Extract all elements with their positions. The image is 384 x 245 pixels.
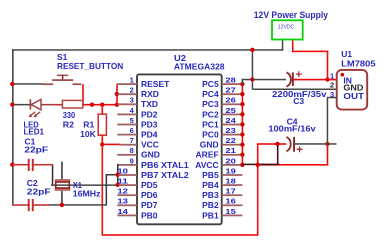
wire AVCC riser xyxy=(277,144,279,165)
crystal X1 xyxy=(55,162,71,205)
wire 5V horizontal back xyxy=(257,164,328,166)
wire supply red drop xyxy=(292,40,294,53)
svg-text:5: 5 xyxy=(130,116,134,125)
svg-text:10K: 10K xyxy=(80,129,96,139)
svg-text:19: 19 xyxy=(225,166,235,175)
capacitor C4 xyxy=(287,137,303,152)
svg-text:R1: R1 xyxy=(83,119,94,129)
svg-text:PB2: PB2 xyxy=(202,200,219,210)
node junction AVCC C4 xyxy=(275,142,279,146)
node junction bus pin25 xyxy=(240,112,244,116)
wire R2 to pins row xyxy=(83,104,118,106)
svg-text:22pF: 22pF xyxy=(27,187,51,197)
svg-text:16MHz: 16MHz xyxy=(73,188,101,198)
svg-text:7: 7 xyxy=(130,136,134,145)
svg-text:10: 10 xyxy=(117,166,128,175)
node junction bus pin21 xyxy=(240,153,244,157)
svg-text:VCC: VCC xyxy=(141,140,159,150)
svg-text:2: 2 xyxy=(130,86,134,95)
svg-text:PB1: PB1 xyxy=(202,210,219,220)
wire IN from node xyxy=(328,79,338,81)
svg-text:20: 20 xyxy=(225,156,235,165)
svg-text:PC0: PC0 xyxy=(202,130,219,140)
wire supply black drop xyxy=(282,40,284,51)
svg-text:22: 22 xyxy=(225,136,235,145)
IC right pin stubs xyxy=(222,83,243,216)
node junction bus pin24 xyxy=(240,122,244,126)
wire gnd jog vertical xyxy=(242,79,244,85)
resistor R2 xyxy=(62,100,82,108)
wire GND left frame xyxy=(12,49,14,205)
wire button right drop xyxy=(82,84,84,105)
node junction 5V riser xyxy=(256,163,260,167)
node junction OUT C4 xyxy=(325,142,329,146)
node junction bus pin26 xyxy=(240,102,244,106)
svg-text:21: 21 xyxy=(225,146,235,155)
IC left pin numbers xyxy=(117,76,134,216)
svg-text:U1: U1 xyxy=(341,49,352,59)
node junction left-C1 xyxy=(10,162,14,166)
svg-text:16: 16 xyxy=(225,197,235,206)
capacitor C2 xyxy=(12,199,50,211)
power supply 12VDC box xyxy=(272,20,303,39)
wire right 5V riser xyxy=(257,144,259,236)
node junction 12V C3 xyxy=(325,77,329,81)
svg-text:PB3: PB3 xyxy=(202,190,219,200)
svg-text:12: 12 xyxy=(117,187,128,196)
svg-text:LED1: LED1 xyxy=(24,127,45,137)
svg-text:LM7805: LM7805 xyxy=(341,59,376,69)
svg-text:PD2: PD2 xyxy=(141,109,158,119)
wire riser to pin10 xyxy=(106,174,108,205)
wire button row left xyxy=(12,83,43,85)
svg-text:26: 26 xyxy=(225,96,235,105)
svg-text:PC1: PC1 xyxy=(202,119,219,129)
svg-text:6: 6 xyxy=(130,126,134,135)
svg-text:8: 8 xyxy=(130,146,134,155)
wire 5V corner down xyxy=(327,144,329,166)
wire OUT stub xyxy=(328,97,337,99)
node junction row3 R1 xyxy=(100,103,104,107)
svg-text:PC3: PC3 xyxy=(202,99,219,109)
svg-text:PD6: PD6 xyxy=(141,190,158,200)
node junction gnd top xyxy=(250,48,254,52)
svg-text:GND: GND xyxy=(200,140,219,150)
svg-text:GND: GND xyxy=(141,150,160,160)
node junction bus pin27 xyxy=(240,92,244,96)
svg-text:PC5: PC5 xyxy=(202,79,219,89)
svg-text:2: 2 xyxy=(330,81,334,90)
wire bottom 5V xyxy=(102,234,259,236)
wire GND top frame xyxy=(12,49,283,51)
node junction row3 a xyxy=(90,103,94,107)
wire LED to R2 xyxy=(53,104,63,106)
wire 7805 gnd row xyxy=(252,89,336,91)
IC left pin names xyxy=(141,79,189,220)
wire 12V horizontal xyxy=(292,51,328,53)
svg-text:100mF/16v: 100mF/16v xyxy=(268,123,316,133)
pushbutton S1 xyxy=(42,75,81,86)
svg-text:AREF: AREF xyxy=(196,150,219,160)
svg-text:1: 1 xyxy=(130,76,134,85)
wire LED row left xyxy=(12,104,30,106)
svg-text:ATMEGA328: ATMEGA328 xyxy=(174,62,225,72)
svg-text:15: 15 xyxy=(225,207,235,216)
svg-text:1: 1 xyxy=(330,72,334,81)
node dot inside U1 xyxy=(341,73,345,77)
regulator U1 LM7805 box xyxy=(337,70,368,110)
svg-text:OUT: OUT xyxy=(343,91,365,101)
wire OUT descender xyxy=(327,97,329,145)
capacitor C1 xyxy=(12,159,52,171)
resistor R1 xyxy=(98,105,106,145)
svg-text:14: 14 xyxy=(117,207,129,216)
wire pin1 riser xyxy=(116,84,118,105)
svg-text:12V Power Supply: 12V Power Supply xyxy=(254,10,328,20)
wire gnd column xyxy=(252,49,254,90)
svg-text:RESET_BUTTON: RESET_BUTTON xyxy=(57,61,123,71)
svg-text:PC4: PC4 xyxy=(202,89,219,99)
wire VCC descender xyxy=(102,144,104,234)
wire C3 left xyxy=(252,79,286,81)
svg-text:9: 9 xyxy=(130,156,134,165)
svg-text:18: 18 xyxy=(225,177,235,186)
svg-text:28: 28 xyxy=(225,76,235,85)
IC right pin numbers xyxy=(225,76,236,216)
node junction gnd C3 xyxy=(250,77,254,81)
IC left pin stubs xyxy=(117,83,137,216)
svg-text:PB0: PB0 xyxy=(141,210,158,220)
node junction pin2 riser xyxy=(115,92,119,96)
node junction pin10 xyxy=(116,173,120,177)
node junction left-button xyxy=(10,82,14,86)
wire C3 right red xyxy=(294,79,328,81)
svg-text:13: 13 xyxy=(117,197,128,206)
svg-text:22pF: 22pF xyxy=(24,145,48,155)
svg-text:RXD: RXD xyxy=(141,89,159,99)
svg-text:PB6 XTAL1: PB6 XTAL1 xyxy=(141,160,189,170)
wire C2 row gray xyxy=(50,204,107,206)
svg-text:PD4: PD4 xyxy=(141,130,158,140)
svg-text:PB4: PB4 xyxy=(202,180,219,190)
wire analog bus vertical xyxy=(242,84,244,165)
svg-text:3: 3 xyxy=(130,96,134,105)
node junction bus pin28 xyxy=(240,82,244,86)
svg-text:R2: R2 xyxy=(63,119,74,129)
svg-text:TXD: TXD xyxy=(141,99,158,109)
wire 12V drop xyxy=(327,51,329,80)
svg-text:25: 25 xyxy=(225,106,235,115)
svg-text:23: 23 xyxy=(225,126,235,135)
svg-text:12VDC: 12VDC xyxy=(278,25,295,31)
IC right pin names xyxy=(195,79,219,220)
svg-text:AVCC: AVCC xyxy=(195,160,218,170)
wire crystal center xyxy=(51,184,118,186)
IC U2 ATMEGA328 box xyxy=(137,74,222,224)
svg-text:4: 4 xyxy=(130,106,135,115)
svg-text:17: 17 xyxy=(225,187,235,196)
node junction pin11 xyxy=(116,183,120,187)
svg-text:PB7 XTAL2: PB7 XTAL2 xyxy=(141,170,189,180)
node junction crystal-C2 xyxy=(60,203,64,207)
wire pin10 horizontal xyxy=(106,174,118,176)
node junction bus pin22 xyxy=(240,142,244,146)
svg-text:C3: C3 xyxy=(293,96,304,106)
svg-text:11: 11 xyxy=(117,177,128,186)
svg-text:PC2: PC2 xyxy=(202,109,219,119)
svg-text:PB5: PB5 xyxy=(202,170,219,180)
svg-text:PD7: PD7 xyxy=(141,200,158,210)
node junction bus pin20 xyxy=(240,163,244,167)
svg-text:PD3: PD3 xyxy=(141,119,158,129)
capacitor C3 xyxy=(287,71,302,87)
LED LED1 xyxy=(29,99,53,117)
wire gnd jog horizontal xyxy=(242,79,254,81)
wire C1 drop xyxy=(52,165,54,185)
wire C4 right gray xyxy=(293,143,336,145)
node junction VCC-R1 xyxy=(100,142,104,146)
node junction bus pin23 xyxy=(240,132,244,136)
node junction row3 pin1riser xyxy=(115,103,119,107)
svg-text:27: 27 xyxy=(225,86,235,95)
svg-text:24: 24 xyxy=(225,116,236,125)
svg-text:PD5: PD5 xyxy=(141,180,158,190)
node junction left-LED xyxy=(10,102,14,106)
wire pin9 bend vertical xyxy=(117,164,119,186)
svg-text:RESET: RESET xyxy=(141,79,170,89)
wire 5V row to C4 xyxy=(257,143,286,145)
wire VCC row red xyxy=(102,144,120,146)
